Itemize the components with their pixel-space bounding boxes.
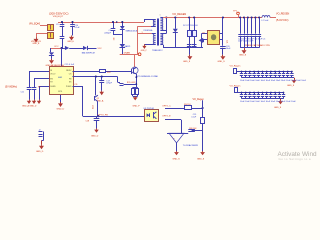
svg-text:UVLO: UVLO xyxy=(50,73,56,75)
svg-text:GND_P: GND_P xyxy=(141,50,148,52)
svg-text:R21 0.05R: R21 0.05R xyxy=(127,82,136,84)
svg-text:R24 1K: R24 1K xyxy=(184,104,191,106)
svg-text:C11: C11 xyxy=(21,91,24,93)
svg-text:D2 STPS3L60U: D2 STPS3L60U xyxy=(183,25,198,27)
svg-text:BAS21: BAS21 xyxy=(125,45,131,48)
svg-text:VO_REGEN: VO_REGEN xyxy=(276,13,290,16)
svg-text:2200pF: 2200pF xyxy=(104,32,112,34)
svg-text:(5.0V DC): (5.0V DC) xyxy=(276,18,289,22)
svg-text:P6KE200A: P6KE200A xyxy=(144,29,154,32)
svg-text:GND_A GND_D: GND_A GND_D xyxy=(22,105,37,108)
svg-text:GND_S: GND_S xyxy=(218,61,226,63)
svg-text:OPTO_E: OPTO_E xyxy=(162,116,171,118)
svg-text:5974: 5974 xyxy=(58,91,62,93)
svg-text:VO_REGEN: VO_REGEN xyxy=(172,13,186,16)
svg-text:L2 1uH: L2 1uH xyxy=(262,20,269,22)
svg-text:VCC: VCC xyxy=(98,48,103,50)
svg-text:470pF: 470pF xyxy=(106,83,112,85)
svg-text:GND_D: GND_D xyxy=(36,151,44,153)
svg-text:0.1uF: 0.1uF xyxy=(191,117,197,119)
svg-text:OPTO_FB: OPTO_FB xyxy=(98,114,109,116)
svg-text:TRBF0912: TRBF0912 xyxy=(152,50,163,52)
svg-text:U3 PS2561: U3 PS2561 xyxy=(144,108,155,110)
svg-text:10uF: 10uF xyxy=(226,48,231,50)
svg-text:10uF 10uF 0.1uF: 10uF 10uF 0.1uF xyxy=(238,41,254,43)
svg-text:GND_S: GND_S xyxy=(183,61,191,63)
svg-text:R22: R22 xyxy=(107,72,112,74)
svg-text:GND_E: GND_E xyxy=(33,43,41,45)
svg-text:NDRV: NDRV xyxy=(66,70,72,72)
svg-text:GND_S: GND_S xyxy=(239,54,247,56)
svg-text:GND_S: GND_S xyxy=(274,107,282,109)
svg-text:U2 MAX5974A: U2 MAX5974A xyxy=(51,64,65,67)
svg-text:GND_E: GND_E xyxy=(67,41,74,43)
svg-text:J2: J2 xyxy=(39,130,41,132)
svg-text:PGND: PGND xyxy=(66,86,72,88)
svg-text:OPTO_C: OPTO_C xyxy=(162,105,171,107)
svg-text:PLACE CAP NEAR IC PIN: PLACE CAP NEAR IC PIN xyxy=(245,44,270,47)
svg-text:Q2: Q2 xyxy=(97,98,99,100)
svg-text:D3: D3 xyxy=(112,38,114,40)
svg-text:C18: C18 xyxy=(86,120,91,122)
svg-text:0.1uF: 0.1uF xyxy=(75,27,81,29)
svg-text:VIN_EQ#3: VIN_EQ#3 xyxy=(29,24,41,26)
svg-text:STD10NM60N-1 DPAK: STD10NM60N-1 DPAK xyxy=(137,75,159,78)
svg-text:10uF 10uF 10uF 10uF 10uF 10uF: 10uF 10uF 10uF 10uF 10uF 10uF 10uF 10uF … xyxy=(240,80,307,82)
svg-text:BAT46WFILM: BAT46WFILM xyxy=(82,52,95,55)
svg-text:VO_Regen: VO_Regen xyxy=(230,65,242,67)
svg-text:TL431ACDBZR: TL431ACDBZR xyxy=(183,144,199,147)
svg-text:Go to Settings to a: Go to Settings to a xyxy=(279,157,311,161)
svg-text:CS: CS xyxy=(75,84,78,86)
svg-text:C15 0.1uF: C15 0.1uF xyxy=(65,64,75,66)
svg-text:1: 1 xyxy=(160,14,161,16)
svg-text:GND_S: GND_S xyxy=(287,85,295,87)
svg-text:(200-330V DC): (200-330V DC) xyxy=(49,12,68,16)
svg-text:10uF 10uF 10uF 10uF 10uF 10uF: 10uF 10uF 10uF 10uF 10uF 10uF 10uF 10uF … xyxy=(240,101,296,103)
svg-text:GND_D: GND_D xyxy=(91,135,99,137)
svg-text:VCC: VCC xyxy=(54,46,59,48)
svg-text:x: x xyxy=(174,138,175,140)
svg-text:(5V 800Hz): (5V 800Hz) xyxy=(5,85,17,88)
svg-text:VIN_EQ#7: VIN_EQ#7 xyxy=(53,16,64,18)
svg-text:GND_S: GND_S xyxy=(197,158,205,160)
svg-text:SGND: SGND xyxy=(50,86,56,88)
svg-text:C9: C9 xyxy=(56,24,59,26)
svg-text:GND_P: GND_P xyxy=(133,106,141,108)
svg-text:R25: R25 xyxy=(91,106,93,109)
svg-text:GND_D: GND_D xyxy=(57,108,65,110)
svg-text:VIN_EQ#5: VIN_EQ#5 xyxy=(31,41,42,43)
svg-text:SMBJ440CA: SMBJ440CA xyxy=(126,29,139,32)
svg-text:C21: C21 xyxy=(226,40,228,43)
svg-text:GND_S: GND_S xyxy=(173,158,181,160)
